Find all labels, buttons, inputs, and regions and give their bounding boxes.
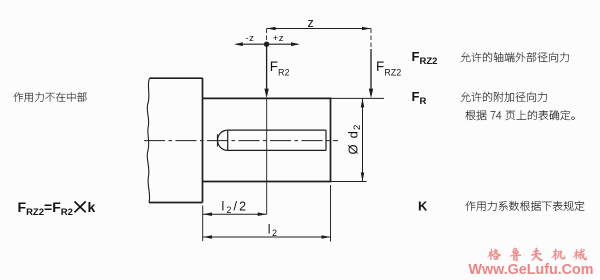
keyway slot on shaft (218, 130, 326, 150)
legend text: allowed external radial force at shaft end (461, 52, 569, 62)
housing body (gearbox wall, broken left edge) (147, 78, 202, 203)
svg-text:FRZ2: FRZ2 (376, 59, 401, 78)
svg-text:FRZ2: FRZ2 (412, 49, 438, 67)
keyway arc center tick (216, 134, 218, 146)
svg-text:z: z (308, 16, 314, 30)
dimension l2 (203, 235, 331, 239)
svg-text:Ø d2: Ø d2 (346, 123, 364, 154)
svg-text:FR2: FR2 (270, 59, 290, 78)
svg-text:k: k (88, 199, 96, 215)
svg-text:l2: l2 (268, 223, 279, 239)
legend text: determined per table on page 74 (466, 110, 575, 120)
dimension l2/2 (203, 212, 267, 216)
shaft outline (203, 98, 331, 181)
force application point (dot) (264, 42, 269, 47)
left note: force not at middle (14, 92, 87, 102)
extension line at shaft top (right) (326, 97, 384, 99)
-z / +z axis line with outward arrowheads (234, 42, 299, 46)
svg-text:FR: FR (412, 89, 427, 107)
force arrow F_R2 (down onto shaft mid) (264, 44, 268, 98)
svg-text:l2/2: l2/2 (222, 200, 249, 216)
F_R2 axis extension through shaft to l2/2 dimension (266, 98, 268, 214)
watermark brand (red chinese) (487, 248, 586, 262)
extension line below housing face (202, 206, 204, 242)
dimension z (top) (267, 27, 371, 49)
legend text: allowed additional radial force (461, 92, 547, 102)
svg-text:K: K (418, 199, 428, 214)
force arrow F_RZ2 (down onto shaft end extension) (369, 49, 373, 98)
legend text: force factor per table below (466, 201, 585, 211)
centerline (dash-dot axis) (144, 140, 338, 142)
svg-text:-z: -z (246, 33, 255, 44)
svg-text:+z: +z (273, 33, 284, 44)
formula F_RZ2 = F_R2 x k (18, 199, 96, 218)
dimension d2 (vertical, right of shaft) (361, 98, 365, 181)
svg-text:Www.GeLufu.Com: Www.GeLufu.Com (469, 262, 594, 278)
extension line at shaft end (right, down) (330, 185, 332, 242)
extension line at shaft bottom (right) (331, 181, 367, 183)
svg-text:FRZ2=FR2: FRZ2=FR2 (18, 199, 73, 218)
